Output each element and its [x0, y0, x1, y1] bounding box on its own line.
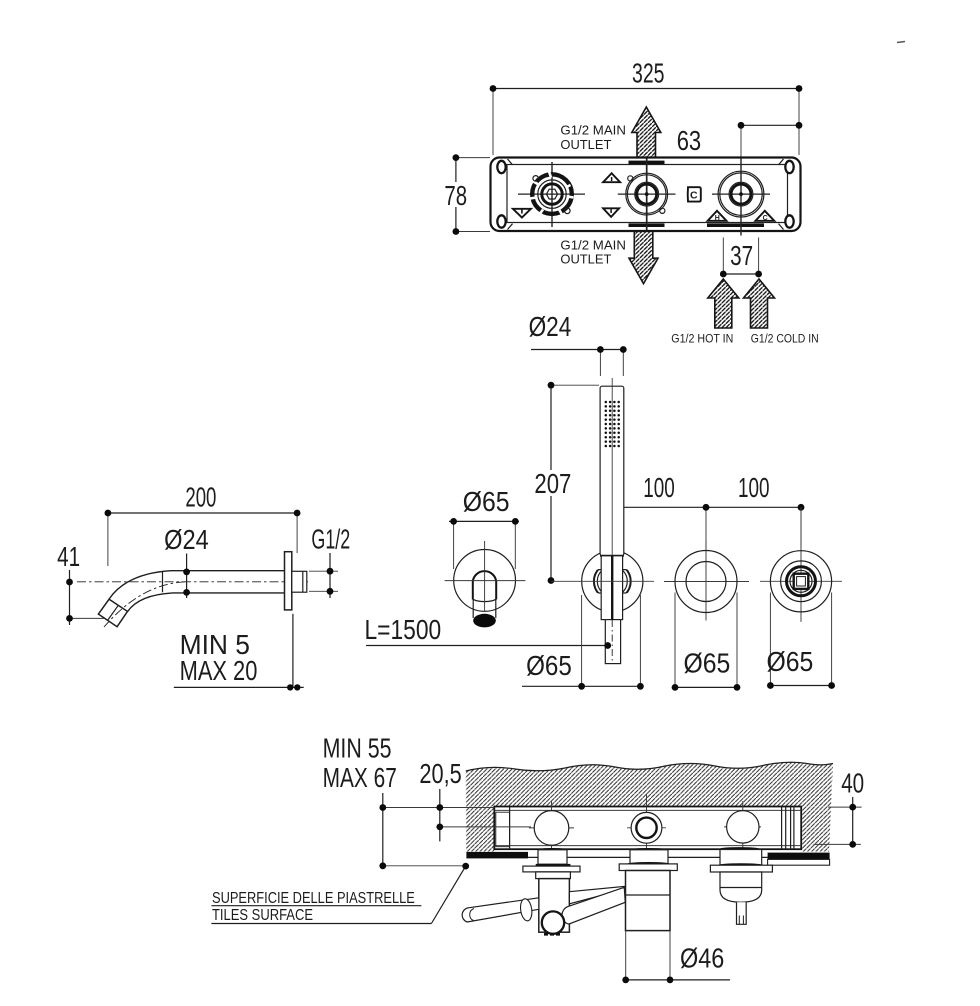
arrow main outlet up: [632, 107, 661, 157]
dim 63: [677, 122, 803, 158]
svg-text:Ø24: Ø24: [529, 311, 572, 342]
lever bar second position: [562, 887, 625, 924]
right trim circle: [760, 507, 842, 622]
svg-text:L=1500: L=1500: [365, 614, 442, 645]
tile left: [466, 852, 528, 859]
svg-text:78: 78: [444, 180, 467, 211]
svg-text:MIN 55: MIN 55: [323, 733, 392, 764]
lever bar right wedge: [569, 886, 624, 903]
stray tick top right: [897, 42, 905, 43]
dim dia65 holder: [522, 595, 644, 690]
svg-text:H: H: [715, 215, 720, 222]
maker logo badge: [688, 187, 701, 201]
tile right: [768, 853, 830, 866]
svg-text:207: 207: [534, 468, 571, 499]
label tiles surface: [211, 863, 469, 924]
arrow cold in: [744, 279, 775, 328]
dim dia65 spout: [449, 486, 519, 569]
tiles surface line: [528, 856, 768, 858]
svg-text:SUPERFICIE DELLE PIASTRELLE: SUPERFICIE DELLE PIASTRELLE: [212, 890, 415, 907]
svg-text:OUTLET: OUTLET: [560, 137, 611, 152]
dim 200: [105, 482, 301, 567]
dim dia46: [622, 931, 730, 984]
dim 207: [531, 382, 599, 584]
svg-text:Ø65: Ø65: [463, 486, 510, 517]
warning triangle 1 down (left valve): [513, 209, 531, 218]
svg-text:Ø65: Ø65: [767, 646, 814, 677]
svg-text:40: 40: [841, 767, 864, 798]
side view knob left: [529, 801, 574, 853]
svg-text:325: 325: [632, 58, 665, 89]
holder crosshair: [551, 580, 654, 582]
middle trim circle: [664, 541, 749, 621]
lever pivot: [542, 911, 564, 934]
spout flange circle front: [445, 541, 526, 627]
svg-text:200: 200: [185, 482, 216, 513]
dim dia24 hand shower: [529, 311, 627, 376]
warning triangle H (right valve): [708, 211, 727, 222]
svg-text:G1/2 COLD IN: G1/2 COLD IN: [751, 331, 819, 345]
svg-text:C: C: [690, 190, 698, 202]
svg-text:Ø65: Ø65: [526, 650, 572, 681]
svg-text:100: 100: [738, 472, 770, 503]
trim middle handshower holder: [619, 848, 677, 931]
warning triangle up (middle valve): [603, 173, 620, 182]
dim dia65 middle: [672, 593, 741, 691]
svg-text:37: 37: [730, 240, 753, 271]
spout tube side view: [77, 571, 308, 627]
lever collar ellipse: [519, 898, 533, 922]
label L=1500 leader: [365, 614, 612, 649]
dim 78: [440, 154, 490, 235]
svg-text:G1/2: G1/2: [311, 524, 350, 555]
valve right: [712, 159, 770, 236]
svg-text:MAX 67: MAX 67: [323, 762, 397, 793]
dim MIN55 MAX67: [323, 733, 495, 870]
svg-text:20,5: 20,5: [419, 758, 461, 789]
dim 41: [57, 541, 120, 625]
svg-text:G1/2 MAIN: G1/2 MAIN: [560, 123, 626, 138]
svg-text:Ø24: Ø24: [164, 524, 209, 555]
arrow main outlet down: [629, 231, 658, 284]
lever bar left segment: [462, 898, 539, 922]
svg-text:TILES SURFACE: TILES SURFACE: [212, 907, 313, 924]
svg-text:C: C: [763, 215, 768, 222]
trim right volume control: [710, 847, 772, 924]
dim 325: [490, 58, 803, 156]
side view knob right: [724, 801, 761, 853]
dim 37: [720, 238, 762, 278]
manifold body front: [491, 158, 801, 232]
svg-text:G1/2 HOT IN: G1/2 HOT IN: [671, 331, 733, 345]
svg-text:MAX 20: MAX 20: [180, 655, 258, 686]
label G1/2 MAIN OUTLET bottom: [560, 238, 626, 267]
side view knob middle: [627, 794, 666, 856]
svg-text:63: 63: [677, 125, 702, 156]
svg-text:G1/2 MAIN: G1/2 MAIN: [560, 238, 626, 253]
dim G1/2: [309, 524, 350, 599]
arrow hot in: [708, 279, 739, 328]
spout wall flange: [285, 552, 307, 610]
hand shower holder circle: [582, 551, 643, 612]
svg-text:OUTLET: OUTLET: [560, 252, 611, 267]
warning triangle down (middle valve): [603, 208, 619, 217]
dim 40: [814, 767, 865, 847]
wall hatch: [466, 762, 833, 851]
valve middle: [618, 159, 676, 231]
hand shower wand: [600, 378, 624, 664]
dim dia24 spout: [164, 524, 209, 598]
svg-text:41: 41: [57, 541, 80, 572]
dim 100 100: [609, 472, 804, 548]
svg-text:Ø46: Ø46: [680, 943, 724, 974]
trim left handle: [523, 848, 580, 932]
svg-text:100: 100: [643, 472, 675, 503]
svg-text:Ø65: Ø65: [684, 648, 731, 679]
manifold corner screw slots: [497, 159, 793, 230]
warning triangle C (right valve): [755, 211, 774, 222]
label G1/2 MAIN OUTLET top: [560, 123, 626, 152]
label MIN 5 MAX 20: [174, 614, 304, 691]
manifold body side view: [494, 807, 801, 853]
dim dia65 right: [767, 593, 835, 689]
valve cartridge left: [518, 162, 585, 227]
dim 20,5: [419, 758, 531, 841]
